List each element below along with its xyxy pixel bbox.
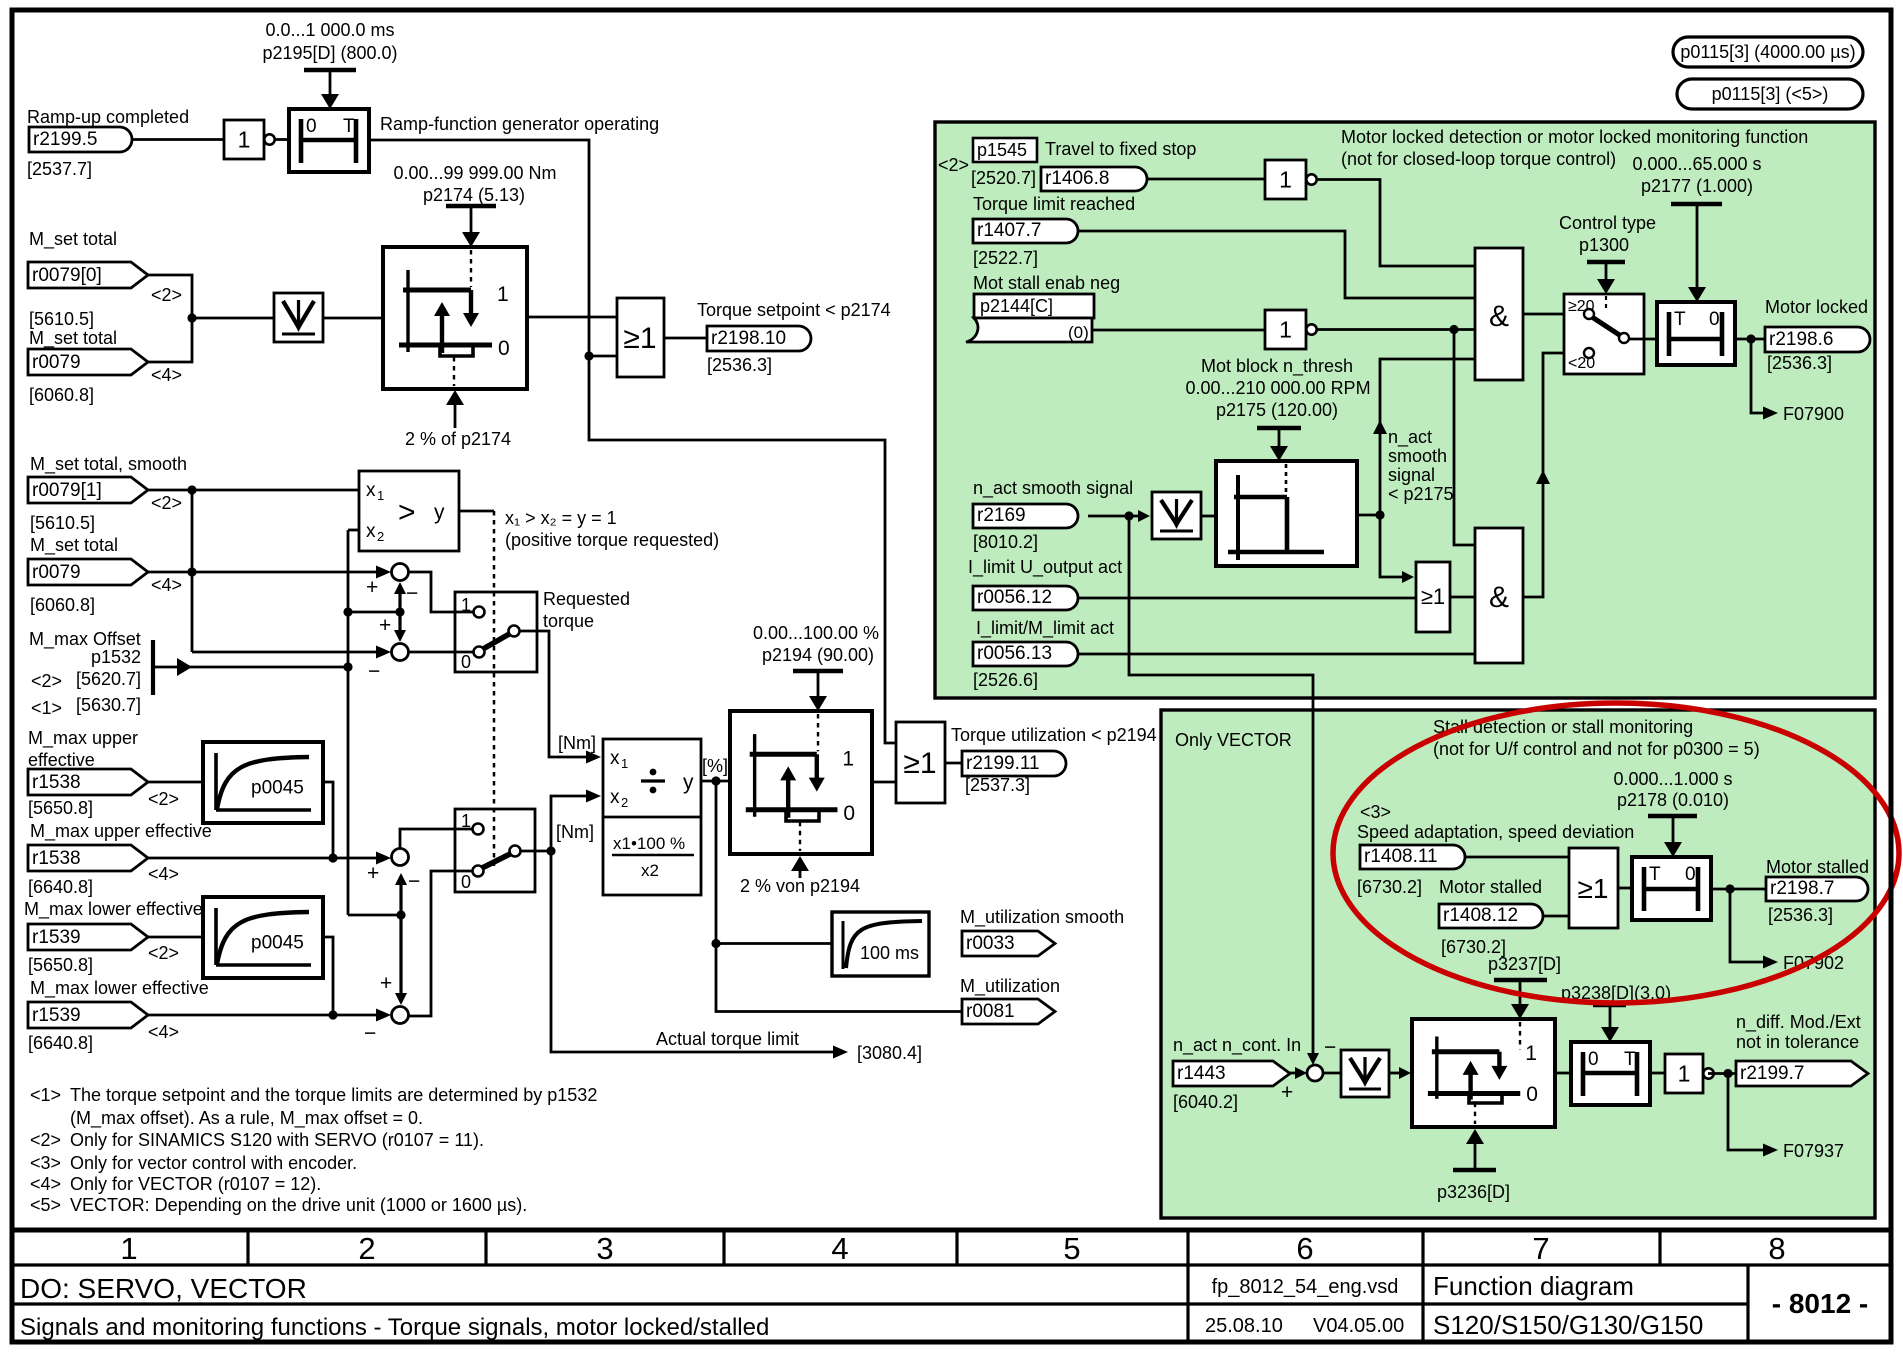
svg-text:>: >: [398, 496, 416, 529]
flag r1408.11: [1360, 845, 1465, 869]
svg-text:M_max upper: M_max upper: [28, 728, 138, 749]
svg-text:<1>: <1>: [31, 698, 62, 718]
svg-text:[2536.3]: [2536.3]: [1767, 353, 1832, 373]
junction r0079 b: [187, 567, 196, 576]
OR gate 3: [1416, 562, 1450, 632]
svg-text:r2199.7: r2199.7: [1740, 1063, 1804, 1084]
wire switch1 out to divider x1: [519, 631, 590, 757]
svg-text:p2195[D] (800.0): p2195[D] (800.0): [262, 43, 397, 63]
junction switch2 out: [546, 846, 555, 855]
svg-text:−: −: [368, 660, 380, 683]
svg-text:<2>: <2>: [938, 155, 969, 175]
svg-text:100 ms: 100 ms: [860, 943, 919, 963]
svg-text:<2>: <2>: [148, 789, 179, 809]
param bar p3238: [1593, 1003, 1626, 1008]
vertical x2/p1532 net: [347, 530, 350, 915]
wire merge to filter: [192, 317, 274, 320]
junction merge: [187, 313, 196, 322]
wire comp2 to AND1 in4: [1380, 359, 1475, 515]
svg-text:[Nm]: [Nm]: [556, 822, 594, 842]
svg-text:&: &: [1489, 581, 1509, 614]
wire sum3 to switch2 port1: [400, 829, 472, 848]
svg-text:not in tolerance: not in tolerance: [1736, 1032, 1859, 1052]
flag r0033 out: [962, 931, 1055, 956]
svg-text:Torque setpoint < p2174: Torque setpoint < p2174: [697, 300, 891, 320]
svg-text:effective: effective: [28, 750, 95, 770]
flag r2199.5: [29, 127, 132, 152]
svg-text:Control type: Control type: [1559, 213, 1656, 233]
svg-text:8: 8: [1768, 1231, 1785, 1266]
wire r1538 servo to p0045: [148, 781, 203, 784]
svg-text:[5650.8]: [5650.8]: [28, 955, 93, 975]
wire NOT3 to AND1 in1: [1316, 180, 1475, 267]
wire comp2 out: [1357, 514, 1380, 517]
svg-text:smooth: smooth: [1388, 446, 1447, 466]
junction divider out: [711, 776, 720, 785]
wire T1 to r2198.6: [1735, 338, 1765, 341]
limiter2 torque utilization block: [730, 711, 872, 854]
svg-text:[2522.7]: [2522.7]: [973, 248, 1038, 268]
svg-text:p1532: p1532: [91, 647, 141, 667]
wire r1443 to sum5: [1290, 1072, 1299, 1075]
svg-text:r1406.8: r1406.8: [1045, 168, 1109, 189]
arrow p1300: [1605, 262, 1608, 283]
svg-text:3: 3: [596, 1231, 613, 1266]
arrow p3236 into limiter3 bottom: [1474, 1141, 1477, 1170]
param bar p1532: [151, 640, 155, 695]
svg-text:M_utilization smooth: M_utilization smooth: [960, 907, 1124, 928]
svg-text:Torque utilization < p2194: Torque utilization < p2194: [951, 725, 1157, 745]
svg-text:F07937: F07937: [1783, 1141, 1844, 1161]
wire r2169 down to only vector box: [1129, 516, 1313, 1060]
svg-text:<2>: <2>: [151, 493, 182, 513]
param bar p2194: [793, 669, 843, 674]
svg-text:r0056.12: r0056.12: [977, 587, 1052, 608]
NOT gate 4: [1265, 310, 1306, 349]
wire T3 to NOT5: [1650, 1072, 1665, 1075]
svg-text:n_act n_cont. In: n_act n_cont. In: [1173, 1035, 1301, 1056]
svg-text:[6060.8]: [6060.8]: [30, 595, 95, 615]
svg-text:x: x: [610, 748, 620, 769]
divide sign: [641, 779, 665, 782]
svg-text:0: 0: [306, 116, 317, 137]
svg-text:V04.05.00: V04.05.00: [1313, 1315, 1404, 1337]
svg-text:(0): (0): [1068, 323, 1089, 342]
wire OR3 to AND2: [1450, 596, 1475, 599]
svg-text:≥1: ≥1: [1421, 584, 1445, 609]
param bar p2177: [1671, 202, 1722, 207]
svg-text:y: y: [683, 771, 694, 794]
svg-text:r1407.7: r1407.7: [977, 220, 1041, 241]
svg-text:I_limit U_output act: I_limit U_output act: [968, 557, 1122, 578]
wire AND1 out to control switch: [1523, 313, 1578, 316]
svg-text:<1>: <1>: [30, 1085, 61, 1105]
wire NOT5 to r2199.7: [1708, 1072, 1736, 1075]
OR gate 1: [617, 298, 664, 377]
svg-text:Motor locked detection or moto: Motor locked detection or motor locked m…: [1341, 127, 1808, 147]
svg-text:1: 1: [1279, 317, 1292, 343]
svg-text:The torque setpoint and the to: The torque setpoint and the torque limit…: [70, 1085, 597, 1105]
svg-text:0: 0: [1588, 1049, 1599, 1070]
junction r1539 net: [328, 1010, 337, 1019]
svg-text:1: 1: [621, 756, 628, 771]
svg-text:n_act: n_act: [1388, 427, 1432, 448]
svg-text:Function diagram: Function diagram: [1433, 1271, 1634, 1301]
svg-text:[Nm]: [Nm]: [558, 733, 596, 753]
svg-text:2 % von p2194: 2 % von p2194: [740, 876, 860, 896]
sum2 circle: [392, 644, 409, 661]
svg-text:M_set total, smooth: M_set total, smooth: [30, 454, 187, 475]
flag r1539 servo: [28, 924, 148, 950]
switch2 lever: [482, 853, 512, 868]
svg-text:x2: x2: [641, 861, 659, 880]
svg-text:torque: torque: [543, 611, 594, 631]
svg-text:<3>: <3>: [30, 1153, 61, 1173]
wire r0056.13 to AND2: [1078, 653, 1475, 656]
wire r1406.8 to NOT3: [1147, 178, 1265, 181]
wire into OR1 input2: [589, 355, 617, 358]
flag r0079[0]: [28, 262, 148, 288]
svg-text:[2537.3]: [2537.3]: [965, 775, 1030, 795]
AND gate 2: [1475, 528, 1523, 663]
svg-text:2: 2: [621, 795, 628, 810]
wire merge r0079 flags: [148, 275, 192, 362]
wire net to lower sums: [348, 914, 401, 917]
svg-text:−: −: [1324, 1036, 1336, 1059]
wire OR2 out: [945, 762, 962, 765]
NOT gate 3: [1265, 160, 1306, 199]
svg-text:1: 1: [1525, 1042, 1537, 1065]
arrow p2175: [1278, 428, 1281, 450]
svg-text:<3>: <3>: [1360, 802, 1391, 822]
svg-text:1: 1: [497, 283, 509, 306]
switch3 lever: [1592, 317, 1621, 336]
NOT gate 5: [1665, 1054, 1703, 1093]
switch1 lever: [483, 633, 511, 649]
junction r2198.7: [1725, 884, 1734, 893]
junction r0079[1]: [187, 485, 196, 494]
junction intersum: [395, 607, 404, 616]
svg-text:T: T: [1674, 309, 1686, 330]
svg-text:1: 1: [120, 1231, 137, 1266]
p0045 block lower: [203, 897, 323, 978]
arrow 2% into limiter2 bottom: [799, 868, 802, 878]
svg-text:2 % of p2174: 2 % of p2174: [405, 429, 511, 449]
svg-text:0.00...99 999.00 Nm: 0.00...99 999.00 Nm: [393, 163, 556, 183]
flag r2199.7 out: [1736, 1061, 1868, 1086]
svg-text:<4>: <4>: [148, 864, 179, 884]
svg-text:M_max lower effective: M_max lower effective: [24, 899, 203, 920]
svg-text:<4>: <4>: [151, 575, 182, 595]
flag r1408.12: [1439, 904, 1543, 928]
flag r2198.6: [1765, 327, 1870, 352]
svg-text:[6040.2]: [6040.2]: [1173, 1092, 1238, 1112]
control switch 20rpm: [1564, 294, 1644, 374]
junction r2169: [1124, 511, 1133, 520]
limiter3 speed difference block: [1412, 1019, 1555, 1127]
wire comp2 to OR3: [1380, 515, 1404, 577]
svg-text:M_max lower effective: M_max lower effective: [30, 978, 209, 999]
svg-text:Torque limit reached: Torque limit reached: [973, 194, 1135, 214]
arrow p2195 into timer: [329, 70, 332, 98]
OR gate 2: [896, 722, 945, 803]
svg-text:p1300: p1300: [1579, 235, 1629, 255]
OR gate 4: [1569, 848, 1618, 928]
svg-text:x1•100 %: x1•100 %: [613, 834, 685, 853]
svg-text:−: −: [406, 582, 418, 605]
svg-text:&: &: [1489, 300, 1509, 333]
arrow p3238 into T3: [1609, 1005, 1612, 1031]
comparator speed threshold block: [1216, 461, 1357, 566]
wire limiter3 to T3: [1555, 1072, 1571, 1075]
filter smoothing block 3: [1341, 1050, 1389, 1097]
limiter1 torque threshold block: [383, 247, 527, 389]
svg-text:F07900: F07900: [1783, 404, 1844, 424]
flag r0079: [28, 349, 148, 375]
smoothing 100ms block: [832, 912, 929, 976]
inter-sum arrows: [398, 585, 401, 612]
svg-text:M_utilization: M_utilization: [960, 976, 1060, 997]
pill p0115 sampling time: [1673, 37, 1863, 67]
flag r1538 servo: [28, 769, 148, 795]
p0045 block upper: [203, 742, 323, 823]
svg-text:p2194 (90.00): p2194 (90.00): [762, 645, 874, 665]
svg-text:fp_8012_54_eng.vsd: fp_8012_54_eng.vsd: [1212, 1276, 1399, 1298]
timer 0-T off delay: [289, 109, 369, 172]
svg-text:0.000...65.000 s: 0.000...65.000 s: [1632, 154, 1761, 174]
svg-text:[6060.8]: [6060.8]: [29, 385, 94, 405]
filter smoothing block 2: [1152, 492, 1201, 539]
wire AND2 out up to switch: [1523, 353, 1564, 597]
svg-text:r0079[1]: r0079[1]: [32, 480, 102, 501]
svg-text:x: x: [366, 521, 376, 542]
green area motor locked monitoring: [935, 122, 1875, 698]
svg-text:7: 7: [1532, 1231, 1549, 1266]
flag r1538 vector: [28, 845, 148, 871]
svg-text:1: 1: [842, 747, 854, 770]
svg-text:<4>: <4>: [148, 1022, 179, 1042]
sum3 circle: [392, 849, 409, 866]
svg-text:≥1: ≥1: [623, 322, 656, 355]
svg-text:(not for closed-loop torque co: (not for closed-loop torque control): [1341, 149, 1616, 169]
pill p0115 5: [1677, 79, 1863, 109]
wire NOT4 to AND1 in3: [1316, 328, 1475, 331]
arrow p2194 into limiter2: [817, 671, 820, 699]
junction intersum lower: [396, 910, 405, 919]
svg-text:p2174 (5.13): p2174 (5.13): [423, 185, 525, 205]
flag r0079 b: [28, 559, 148, 585]
arrow p3237 into limiter3: [1519, 980, 1522, 1008]
wire r2199.5 to NOT1: [132, 138, 224, 141]
svg-text:p0115[3] (<5>): p0115[3] (<5>): [1712, 84, 1829, 104]
svg-text:Only for vector control with e: Only for vector control with encoder.: [70, 1153, 357, 1173]
svg-text:0.0...1 000.0 ms: 0.0...1 000.0 ms: [265, 20, 394, 40]
svg-text:25.08.10: 25.08.10: [1205, 1315, 1283, 1337]
svg-text:p0115[3] (4000.00 µs): p0115[3] (4000.00 µs): [1680, 42, 1855, 62]
wire r0079 to sum1: [148, 571, 384, 574]
wire OR4 to T2: [1618, 887, 1632, 890]
wire r0079[1] to comparator x1: [148, 489, 359, 492]
svg-text:p2177 (1.000): p2177 (1.000): [1641, 176, 1753, 196]
flag r2198.7: [1766, 877, 1868, 901]
svg-text:[3080.4]: [3080.4]: [857, 1043, 922, 1063]
wire p2144 to NOT4: [1092, 329, 1265, 332]
svg-text:M_max upper effective: M_max upper effective: [30, 821, 212, 842]
wire divider out: [701, 780, 730, 783]
svg-text:0.00...100.00 %: 0.00...100.00 %: [753, 623, 879, 643]
junction r2199.7: [1723, 1069, 1732, 1078]
divider block: [603, 739, 701, 895]
svg-text:n_act smooth signal: n_act smooth signal: [973, 478, 1133, 499]
wire T2 to r2198.7: [1711, 888, 1765, 891]
svg-text:r1538: r1538: [32, 772, 81, 793]
svg-text:[5620.7]: [5620.7]: [76, 669, 141, 689]
svg-text:6: 6: [1296, 1231, 1313, 1266]
svg-text:r2198.10: r2198.10: [711, 328, 786, 349]
wire NOT4 net down to AND2: [1454, 330, 1475, 546]
wire p0045 upper out: [323, 782, 333, 857]
wire sum2 to switch1 port0: [408, 651, 473, 654]
svg-text:r2169: r2169: [977, 505, 1026, 526]
arrow p2174 into limiter1: [470, 206, 473, 235]
svg-text:r0079: r0079: [32, 562, 81, 583]
junction 100ms: [711, 939, 720, 948]
wire r1407.7 to AND1 in2: [1078, 231, 1475, 298]
svg-text:r1539: r1539: [32, 927, 81, 948]
wire r1408.11 to OR4: [1465, 856, 1569, 859]
wire to F07900: [1751, 339, 1765, 413]
svg-text:[5610.5]: [5610.5]: [30, 513, 95, 533]
svg-text:r0033: r0033: [966, 933, 1015, 954]
param bar p3236: [1453, 1168, 1496, 1173]
wire to divider x2: [551, 796, 590, 851]
svg-text:1: 1: [1279, 167, 1292, 193]
svg-text:r2198.7: r2198.7: [1770, 878, 1834, 899]
svg-text:x₁ > x₂ = y = 1: x₁ > x₂ = y = 1: [505, 508, 617, 528]
svg-text:2: 2: [377, 529, 384, 544]
svg-text:p0045: p0045: [251, 778, 304, 799]
svg-text:Travel to fixed stop: Travel to fixed stop: [1045, 139, 1196, 159]
svg-text:1: 1: [238, 127, 251, 153]
inter-sum arrows lower: [399, 876, 402, 915]
flag r2169: [973, 504, 1078, 528]
svg-text:p2178 (0.010): p2178 (0.010): [1617, 790, 1729, 810]
svg-text:0.00...210 000.00 RPM: 0.00...210 000.00 RPM: [1185, 378, 1370, 398]
wire r1539 servo to p0045: [148, 936, 203, 939]
svg-text:+: +: [367, 862, 379, 885]
arrow 2% into limiter1 bottom: [454, 402, 457, 428]
svg-text:(positive torque requested): (positive torque requested): [505, 530, 719, 550]
wire to F07937: [1728, 1074, 1765, 1151]
svg-text:M_set total: M_set total: [29, 229, 117, 250]
svg-text:Actual torque limit: Actual torque limit: [656, 1029, 799, 1049]
svg-text:Motor stalled: Motor stalled: [1439, 877, 1542, 897]
svg-text:n_diff. Mod./Ext: n_diff. Mod./Ext: [1736, 1012, 1861, 1033]
junction r2198.6: [1746, 334, 1755, 343]
svg-text:−: −: [408, 870, 420, 893]
svg-text:≥1: ≥1: [1578, 873, 1609, 904]
svg-text:r1408.11: r1408.11: [1364, 846, 1438, 867]
wire timer output to OR1 region: [369, 140, 896, 743]
svg-text:Ramp-function generator operat: Ramp-function generator operating: [380, 114, 659, 134]
wire filter1 to limiter1: [323, 317, 383, 320]
svg-text:0: 0: [1709, 309, 1720, 330]
svg-text:Signals and monitoring functio: Signals and monitoring functions - Torqu…: [20, 1314, 769, 1341]
flag r1406.8: [1041, 167, 1147, 191]
param bar p2175: [1257, 426, 1301, 431]
wire limiter1 to OR1: [527, 316, 617, 319]
svg-text:<2>: <2>: [148, 943, 179, 963]
svg-text:2: 2: [358, 1231, 375, 1266]
title block grid: [10, 1228, 1893, 1233]
svg-text:[2526.6]: [2526.6]: [973, 670, 1038, 690]
wire r0056.12 to OR3: [1078, 597, 1416, 600]
svg-text:r1443: r1443: [1177, 1063, 1226, 1084]
svg-text:p2144[C]: p2144[C]: [980, 296, 1053, 316]
svg-text:x: x: [610, 787, 620, 808]
wire into comparator x2: [348, 529, 359, 532]
svg-text:−: −: [364, 1022, 376, 1045]
svg-text:p2175 (120.00): p2175 (120.00): [1216, 400, 1338, 420]
svg-text:+: +: [379, 614, 391, 637]
svg-text:1: 1: [1678, 1061, 1691, 1087]
svg-text:Motor stalled: Motor stalled: [1766, 857, 1869, 877]
junction r1538 net: [328, 853, 337, 862]
svg-text:(not for U/f control and not f: (not for U/f control and not for p0300 =…: [1433, 739, 1760, 759]
svg-text:0: 0: [1526, 1083, 1538, 1106]
svg-text:T: T: [1649, 864, 1661, 885]
svg-text:Only for VECTOR (r0107 = 12).: Only for VECTOR (r0107 = 12).: [70, 1174, 321, 1194]
flag r1539 vector: [28, 1002, 148, 1028]
svg-text:<2>: <2>: [151, 285, 182, 305]
svg-text:T: T: [343, 116, 355, 137]
wire NOT1 to timer: [274, 138, 289, 141]
svg-text:4: 4: [831, 1231, 848, 1266]
svg-text:0: 0: [461, 872, 471, 892]
vertical r0079 net down: [191, 490, 194, 652]
svg-text:r2199.11: r2199.11: [966, 753, 1040, 774]
svg-text:r0079: r0079: [32, 352, 81, 373]
param bar p2178: [1648, 814, 1697, 819]
param bar p2174: [446, 204, 496, 209]
svg-text:0: 0: [1685, 864, 1696, 885]
param bar p2195: [304, 68, 356, 73]
svg-text:≥1: ≥1: [903, 747, 936, 780]
svg-text:Speed adaptation, speed deviat: Speed adaptation, speed deviation: [1357, 822, 1634, 842]
svg-text:[5630.7]: [5630.7]: [76, 695, 141, 715]
switch 2: [455, 809, 535, 892]
wire p1532 to net: [153, 666, 348, 669]
wire switch3 out to T1: [1629, 338, 1657, 341]
svg-text:[6730.2]: [6730.2]: [1357, 877, 1422, 897]
red highlight ellipse: [1333, 703, 1899, 1003]
dashed control line switches: [493, 511, 496, 866]
filter smoothing block 1: [274, 293, 323, 342]
svg-text:M_set total: M_set total: [29, 328, 117, 349]
svg-text:Mot stall enab neg: Mot stall enab neg: [973, 273, 1120, 293]
svg-text:[6640.8]: [6640.8]: [28, 877, 93, 897]
svg-text:p1545: p1545: [977, 140, 1027, 160]
arrow p2178 into T2: [1672, 816, 1675, 846]
svg-text:+: +: [1281, 1081, 1293, 1104]
wire sum4 to switch2 port0: [409, 871, 472, 1016]
svg-text:[5610.5]: [5610.5]: [29, 309, 94, 329]
svg-text:(M_max offset). As a rule, M_m: (M_max offset). As a rule, M_max offset …: [70, 1108, 423, 1129]
wire filter2 to comp2: [1201, 515, 1216, 518]
svg-text:S120/S150/G130/G150: S120/S150/G130/G150: [1433, 1310, 1703, 1340]
svg-text:Requested: Requested: [543, 589, 630, 609]
svg-text:[8010.2]: [8010.2]: [973, 532, 1038, 552]
